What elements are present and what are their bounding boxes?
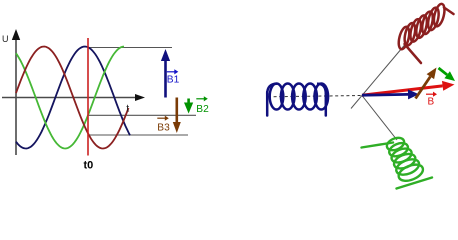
svg-text:t: t [126, 102, 129, 114]
svg-text:B3: B3 [157, 122, 170, 133]
svg-text:U: U [2, 34, 9, 44]
svg-text:B: B [428, 97, 435, 108]
svg-text:B2: B2 [196, 104, 209, 115]
svg-text:B1: B1 [167, 74, 180, 85]
svg-text:t0: t0 [84, 160, 94, 172]
